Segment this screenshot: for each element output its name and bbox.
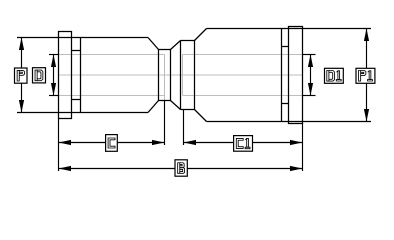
collar top edge: [181, 40, 195, 42]
right body top line with P1 extension: [207, 28, 372, 30]
right bottom chamfer: [195, 110, 207, 122]
dimension line D: [53, 55, 55, 96]
dimension line P: [21, 38, 23, 113]
collar left wall: [180, 41, 182, 110]
arrow P up: [19, 38, 24, 51]
label P: [17, 70, 24, 81]
label box D1: [325, 68, 344, 83]
arrow P down: [19, 100, 24, 113]
left body top line with P extension: [17, 37, 148, 39]
label box C: [106, 135, 118, 152]
arrow C1 right: [290, 140, 303, 145]
arrow D down: [51, 83, 56, 96]
right tube end face: [182, 55, 184, 96]
arrow C1 left: [184, 140, 197, 145]
label D1: [327, 71, 341, 82]
dimension line C: [59, 142, 165, 144]
label box D: [33, 68, 46, 83]
cone top: [171, 41, 181, 50]
left top chamfer: [148, 38, 159, 50]
label D: [35, 70, 43, 81]
arrow P1 up: [364, 29, 369, 42]
label C: [108, 138, 115, 148]
extension line below right flange: [302, 124, 304, 172]
arrow P1 down: [364, 109, 369, 122]
arrow D1 down: [308, 83, 313, 96]
left release-ring flange: [59, 32, 72, 119]
label box P: [15, 68, 28, 83]
arrow C right: [152, 140, 165, 145]
collar right wall: [194, 41, 196, 110]
cone bottom: [171, 101, 181, 110]
neck bottom edge: [159, 100, 171, 102]
arrow B left: [59, 166, 72, 171]
label B: [178, 163, 185, 174]
dimension line C1: [184, 142, 303, 144]
arrow D1 up: [308, 55, 313, 68]
tube bore line lower right: [183, 95, 303, 97]
arrow C left: [59, 140, 72, 145]
right cap boundary: [281, 29, 283, 122]
extension line below left tube end: [164, 101, 166, 146]
dimension line D1: [310, 55, 312, 96]
label P1: [359, 71, 373, 82]
arrow D up: [51, 55, 56, 68]
label box P1: [356, 68, 375, 83]
label C1: [236, 138, 250, 148]
right body bottom line with P1 extension: [207, 121, 372, 123]
extension line below collar right: [183, 110, 185, 146]
tube bore line lower left: [59, 95, 165, 97]
left cap boundary: [80, 38, 82, 113]
right rung upper: [282, 46, 289, 48]
left rung lower: [72, 99, 81, 101]
extension tick D1 lower: [303, 95, 316, 97]
dimension line P1: [366, 29, 368, 122]
left bottom chamfer: [148, 101, 159, 113]
extension line below left flange: [58, 119, 60, 172]
centerline: [59, 74, 303, 76]
label box B: [175, 160, 187, 176]
tube bore line upper left: [59, 54, 165, 56]
tube bore line upper right: [183, 54, 303, 56]
extension tick D1 upper: [303, 54, 316, 56]
left tube end face: [164, 55, 166, 101]
right rung lower: [282, 103, 289, 105]
neck left wall: [158, 50, 160, 101]
neck top edge: [159, 49, 171, 51]
neck right wall: [170, 50, 172, 101]
collar bottom edge: [181, 109, 195, 111]
left body bottom line with P extension: [17, 112, 148, 114]
left rung upper: [72, 50, 81, 52]
dimension line B: [59, 168, 303, 170]
arrow B right: [290, 166, 303, 171]
right top chamfer: [195, 29, 207, 41]
right release-ring flange: [289, 27, 303, 124]
label box C1: [234, 136, 253, 152]
extension tick D lower: [49, 95, 59, 97]
extension tick D upper: [49, 54, 59, 56]
